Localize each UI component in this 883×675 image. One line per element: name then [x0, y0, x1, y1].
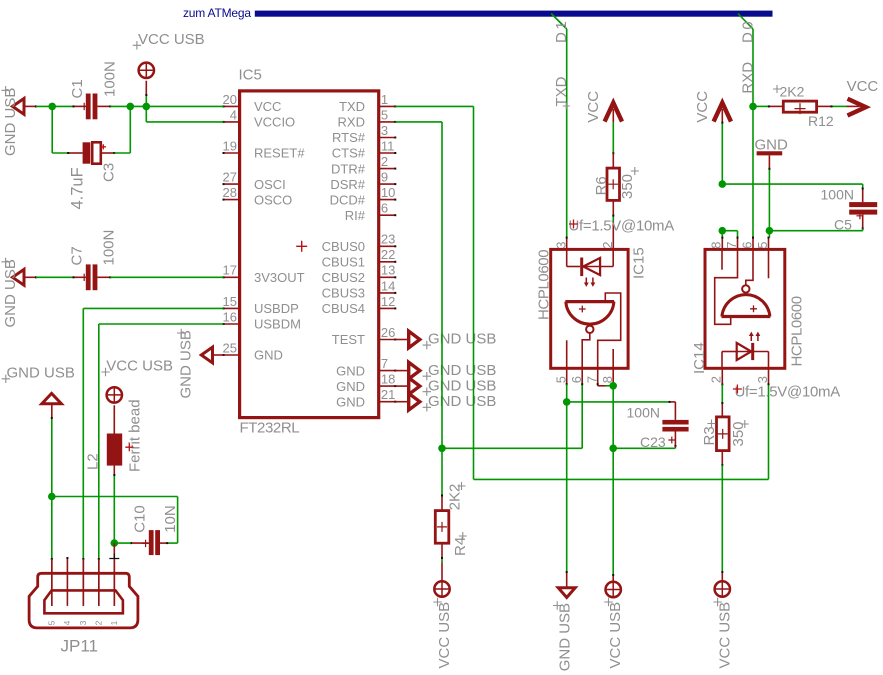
svg-text:VCC: VCC: [585, 91, 602, 123]
wire R4 bottom: [441, 543, 443, 558]
svg-text:CBUS2: CBUS2: [322, 270, 365, 285]
pin IC5.12 CBUS4: [379, 307, 396, 309]
svg-text:DSR#: DSR#: [330, 177, 365, 192]
IC14 output from pin6: [746, 249, 753, 285]
pin JP11.4: [66, 558, 68, 606]
svg-text:GND USB: GND USB: [428, 331, 496, 348]
svg-text:Ferrit bead: Ferrit bead: [126, 399, 143, 472]
wire C1 right to IC5: [110, 105, 223, 107]
svg-text:GND USB: GND USB: [428, 393, 496, 410]
svg-text:2: 2: [600, 241, 615, 248]
svg-text:100N: 100N: [102, 61, 119, 97]
svg-text:VCC USB: VCC USB: [106, 358, 173, 375]
wire R6 to IC15 pin2: [612, 200, 614, 215]
svg-text:350: 350: [619, 174, 636, 199]
wire VCCIO pin4 branch: [145, 106, 147, 122]
svg-text:C3: C3: [101, 163, 118, 182]
wire junction to JP11 pin5: [51, 497, 53, 560]
pin IC5.21 GND: [379, 401, 396, 403]
pin IC5.17 3V3OUT: [224, 276, 240, 278]
junction VCC USB: [143, 103, 151, 111]
svg-text:6: 6: [569, 376, 584, 383]
pin IC5.22 CBUS1: [379, 261, 396, 263]
svg-text:RXD: RXD: [739, 62, 756, 94]
svg-text:4.7uF: 4.7uF: [68, 167, 86, 209]
pin IC5.4 VCCIO: [224, 121, 240, 123]
svg-text:27: 27: [223, 170, 237, 185]
svg-text:7: 7: [724, 241, 739, 248]
pin IC15.3 stub: [566, 238, 568, 250]
svg-text:R3: R3: [701, 426, 718, 445]
svg-text:13: 13: [381, 263, 395, 278]
svg-text:19: 19: [223, 138, 237, 153]
wire C23 top net: [567, 401, 670, 403]
IC U5 FT232RL box: [240, 91, 379, 418]
svg-text:C7: C7: [69, 246, 86, 265]
svg-text:IC14: IC14: [691, 342, 708, 374]
wire RXD net (pin5): [395, 121, 442, 123]
svg-text:17: 17: [223, 263, 237, 278]
supply GND USB arrow row19: [395, 401, 408, 403]
pin IC5.16 USBDM: [224, 323, 240, 325]
supply VCC USB circle (top): [139, 63, 154, 78]
supply GND USB arrow row17: [395, 370, 408, 372]
svg-text:25: 25: [223, 340, 237, 355]
svg-text:R6: R6: [593, 176, 610, 195]
svg-text:Uf=1.5V@10mA: Uf=1.5V@10mA: [569, 218, 675, 235]
IC14 pin7 internal feedback: [715, 249, 738, 324]
pin IC14.2 stub: [721, 368, 723, 384]
svg-text:26: 26: [381, 325, 395, 340]
resistor R6 350: [607, 168, 620, 200]
wire USBDM: [99, 323, 224, 325]
wire R4 top: [441, 448, 443, 495]
svg-text:VCCIO: VCCIO: [254, 115, 295, 130]
svg-text:DCD#: DCD#: [330, 192, 366, 207]
pin IC5.10 DCD#: [379, 199, 396, 201]
supply GND USB down arrow: [558, 588, 575, 598]
wire VBUS to JP11 pin1: [113, 543, 115, 606]
IC15 HCPL0600 box: [551, 249, 628, 368]
junction C5/GND/IC14.5: [766, 227, 774, 235]
pin IC5.9 DSR#: [379, 183, 396, 185]
wire C5 top net: [722, 183, 862, 185]
supply GND symbol: [757, 151, 783, 155]
svg-text:GND: GND: [336, 379, 365, 394]
pin JP11.1: [113, 559, 115, 606]
svg-text:C1: C1: [69, 79, 86, 98]
pin IC5.27 OSCI: [224, 183, 240, 185]
resistor R4 2K2: [435, 511, 449, 544]
wire GND lead: [768, 155, 770, 168]
IC15 output to pin6: [582, 333, 590, 368]
supply GND USB arrow 3 (pin25): [201, 347, 212, 363]
svg-text:GND USB: GND USB: [2, 88, 19, 156]
pin IC5.20 VCC: [224, 105, 240, 107]
pin IC15.5 stub: [566, 368, 568, 384]
svg-text:GND USB: GND USB: [7, 365, 75, 382]
resistor R3 350: [717, 417, 730, 451]
wire pin2 to R3: [721, 385, 723, 404]
svg-text:100N: 100N: [627, 405, 660, 421]
IC14 detector: [722, 315, 771, 318]
svg-text:3V3OUT: 3V3OUT: [254, 270, 305, 285]
svg-text:GND: GND: [336, 363, 365, 378]
pin IC5.19 RESET#: [224, 152, 240, 154]
svg-text:10N: 10N: [162, 505, 179, 533]
supply VCC USB circle (mid-left): [107, 387, 122, 402]
svg-text:D0: D0: [739, 19, 756, 43]
pin IC5.25 GND: [224, 354, 240, 356]
pin JP11.5: [51, 559, 53, 606]
wire C23 bottom: [674, 432, 676, 447]
wire USBDP: [83, 307, 223, 309]
wire VCC to R6: [612, 123, 614, 154]
IC14 pin5 internal: [768, 249, 770, 278]
svg-text:2: 2: [709, 376, 724, 383]
IC15 pin7 internal feedback: [598, 293, 621, 368]
IC14 pin8 internal: [721, 249, 723, 269]
junction pin5/C23: [563, 398, 571, 406]
svg-text:6: 6: [740, 241, 755, 248]
wire VCC USB circle lead: [145, 81, 147, 95]
svg-text:DTR#: DTR#: [331, 161, 366, 176]
svg-text:OSCO: OSCO: [254, 192, 292, 207]
svg-text:CBUS1: CBUS1: [322, 255, 365, 270]
wire arrow1 to C1: [24, 105, 36, 107]
resistor R12 2K2: [783, 101, 816, 112]
svg-text:3: 3: [553, 241, 568, 248]
svg-text:GND USB: GND USB: [2, 259, 19, 327]
wire net D1 from bus: [551, 14, 567, 30]
supply GND USB arrow 1 (left): [13, 99, 25, 115]
svg-text:GND: GND: [336, 394, 365, 409]
svg-text:HCPL0600: HCPL0600: [536, 250, 553, 320]
junction VCC/IC14 pin7/pin8: [719, 227, 727, 235]
junction RXD/R4: [438, 445, 446, 453]
wire to IC14 pin8: [721, 231, 723, 238]
pin IC5.1 TXD: [379, 105, 396, 107]
svg-text:2: 2: [381, 154, 388, 169]
junction D0/R12: [749, 103, 757, 111]
svg-text:4: 4: [230, 107, 237, 122]
svg-text:GND USB: GND USB: [428, 362, 496, 379]
pin IC5.26 TEST: [379, 339, 396, 341]
svg-text:10: 10: [381, 185, 395, 200]
wire GND arrow down: [51, 404, 53, 418]
wire circle to L2: [113, 405, 115, 433]
svg-text:GND: GND: [254, 348, 283, 363]
pin IC5.11 CTS#: [379, 152, 396, 154]
wire TXD net (pin1): [395, 105, 473, 107]
svg-text:5: 5: [46, 620, 56, 625]
pin IC15.7 L-wire: [597, 368, 599, 386]
junction JP11 shield: [48, 493, 56, 501]
pin IC15.8 stub + junction: [612, 368, 614, 386]
supply GND USB up arrow (JP11): [42, 393, 62, 403]
svg-text:R12: R12: [808, 113, 834, 129]
svg-text:D1: D1: [553, 19, 570, 43]
pin JP11.3: [82, 559, 84, 606]
IC15 pin5 internal: [566, 340, 568, 368]
svg-text:Uf=1.5V@10mA: Uf=1.5V@10mA: [735, 383, 841, 400]
pin IC15.6 stub: [581, 368, 583, 384]
pin IC5.18 GND: [379, 385, 396, 387]
svg-text:FT232RL: FT232RL: [240, 420, 300, 437]
svg-text:1: 1: [109, 620, 119, 625]
svg-text:VCC USB: VCC USB: [607, 602, 624, 669]
svg-text:RXD: RXD: [338, 115, 365, 130]
svg-text:CBUS3: CBUS3: [322, 286, 365, 301]
svg-text:HCPL0600: HCPL0600: [789, 296, 806, 366]
svg-text:12: 12: [381, 294, 395, 309]
wire to IC14 pin7: [722, 230, 737, 232]
inductor L2 ferrite bead: [107, 434, 122, 466]
svg-text:28: 28: [223, 185, 237, 200]
svg-text:2: 2: [93, 620, 103, 625]
svg-text:GND USB: GND USB: [556, 603, 573, 671]
svg-text:8: 8: [709, 241, 724, 248]
capacitor C7 100N: [74, 276, 86, 278]
svg-text:22: 22: [381, 247, 395, 262]
pin IC5.15 USBDP: [224, 307, 240, 309]
wire shield net to C10: [52, 496, 178, 498]
IC5 origin cross: [296, 241, 307, 252]
svg-text:6: 6: [381, 201, 388, 216]
svg-text:RI#: RI#: [345, 208, 366, 223]
svg-text:VCC: VCC: [254, 99, 281, 114]
wire RXD to IC15 pin6: [442, 447, 582, 449]
junction C23/pin8 net: [609, 445, 617, 453]
capacitor C23 100N: [662, 420, 688, 425]
pin IC14.6 stub: [752, 238, 754, 250]
svg-text:R4: R4: [452, 537, 469, 556]
connector JP11 inner slot: [44, 590, 123, 613]
wire pin8 net down to VCC USB: [612, 386, 614, 449]
svg-text:RESET#: RESET#: [254, 146, 305, 161]
svg-text:CTS#: CTS#: [332, 146, 366, 161]
svg-text:100N: 100N: [100, 230, 117, 266]
svg-text:9: 9: [381, 170, 388, 185]
capacitor C1 100N: [74, 105, 86, 107]
svg-text:VCC USB: VCC USB: [436, 602, 453, 669]
svg-text:16: 16: [223, 309, 237, 324]
pin IC5.13 CBUS2: [379, 276, 396, 278]
svg-text:23: 23: [381, 232, 395, 247]
IC15 detector: [565, 300, 614, 303]
wire C5 bottom: [862, 215, 864, 229]
supply GND USB arrow 2 (left): [13, 269, 25, 285]
IC14 LED (input diode): [721, 352, 723, 369]
svg-text:TXD: TXD: [553, 76, 570, 106]
svg-text:1: 1: [381, 92, 388, 107]
svg-text:18: 18: [381, 372, 395, 387]
supply VCC arrow right: [847, 105, 860, 107]
svg-text:20: 20: [223, 92, 237, 107]
supply GND USB arrow row15: [395, 339, 408, 341]
junction C3 right: [127, 103, 135, 111]
bus zum ATMega: [255, 11, 773, 17]
pin IC5.14 CBUS3: [379, 292, 396, 294]
svg-text:TXD: TXD: [339, 99, 365, 114]
svg-text:VCC USB: VCC USB: [716, 602, 733, 669]
pin IC5.2 DTR#: [379, 168, 396, 170]
svg-text:3: 3: [78, 620, 88, 625]
svg-text:GND: GND: [755, 136, 789, 153]
junction C1/C3 left: [48, 103, 56, 111]
junction VCC/C5: [719, 180, 727, 188]
IC15 light arrows down: [586, 278, 593, 284]
svg-text:3: 3: [755, 376, 770, 383]
svg-text:OSCI: OSCI: [254, 177, 286, 192]
svg-text:VCC USB: VCC USB: [138, 31, 205, 48]
wire L2 to C10 junction: [113, 466, 115, 475]
svg-text:C10: C10: [132, 505, 149, 533]
pin JP11.2: [98, 559, 100, 606]
svg-text:zum ATMega: zum ATMega: [183, 6, 251, 20]
wire to IC14 pin5: [768, 231, 770, 238]
supply VCC arrow 1: [605, 103, 622, 122]
supply VCC USB circle (mid): [606, 582, 621, 597]
svg-text:IC5: IC5: [239, 67, 262, 84]
wire C7 to IC5 pin17: [110, 276, 223, 278]
svg-text:2K2: 2K2: [780, 84, 805, 100]
capacitor C3 4.7uF branch: [51, 106, 53, 153]
svg-text:TEST: TEST: [332, 332, 365, 347]
wire net D0 from bus: [738, 14, 753, 30]
IC15 pin8 internal: [612, 349, 614, 368]
svg-text:7: 7: [381, 356, 388, 371]
pin IC5.3 RTS#: [379, 137, 396, 139]
pin IC5.28 OSCO: [224, 199, 240, 201]
svg-text:GND USB: GND USB: [428, 377, 496, 394]
svg-text:5: 5: [381, 107, 388, 122]
svg-text:21: 21: [381, 387, 395, 402]
supply VCC USB circle (right): [715, 581, 730, 596]
svg-text:4: 4: [62, 620, 72, 625]
svg-text:15: 15: [223, 294, 237, 309]
pin IC5.7 GND: [379, 370, 396, 372]
svg-text:USBDM: USBDM: [254, 317, 301, 332]
svg-text:11: 11: [381, 138, 395, 153]
IC15 LED (input diode): [566, 249, 568, 266]
wire R3 bottom to VCC USB: [721, 451, 723, 466]
wire arrow2 to C7: [24, 276, 36, 278]
svg-text:100N: 100N: [821, 187, 854, 203]
svg-text:14: 14: [381, 278, 395, 293]
svg-text:CBUS0: CBUS0: [322, 239, 365, 254]
capacitor C10 10N: [167, 542, 177, 544]
svg-text:GND USB: GND USB: [178, 330, 195, 398]
supply VCC USB circle (R4): [434, 581, 449, 596]
connector JP11 outline: [29, 573, 138, 628]
IC14 light arrows up: [751, 335, 758, 341]
svg-text:VCC: VCC: [847, 78, 879, 95]
svg-text:L2: L2: [85, 453, 102, 470]
svg-text:IC15: IC15: [631, 247, 648, 279]
capacitor C5 100N: [849, 202, 877, 207]
supply VCC arrow 2: [714, 103, 731, 122]
wire pin5 to GND USB: [566, 384, 568, 402]
pin IC5.5 RXD: [379, 121, 396, 123]
IC14 HCPL0600 box: [705, 249, 785, 368]
junction C10/VBUS: [111, 539, 119, 547]
svg-text:CBUS4: CBUS4: [322, 301, 365, 316]
svg-text:5: 5: [755, 241, 770, 248]
svg-text:RTS#: RTS#: [332, 130, 366, 145]
supply GND USB arrow row18: [395, 385, 408, 387]
svg-text:3: 3: [381, 123, 388, 138]
wire VCC down to IC14: [721, 123, 723, 185]
svg-text:USBDP: USBDP: [254, 301, 299, 316]
pin IC5.6 RI#: [379, 214, 396, 216]
pin IC5.23 CBUS0: [379, 245, 396, 247]
wire R12 left: [753, 105, 769, 107]
wire R12 right to VCC: [817, 105, 832, 107]
svg-text:JP11: JP11: [61, 637, 99, 656]
pin IC14.3 stub: [768, 368, 770, 384]
svg-text:VCC: VCC: [694, 91, 711, 123]
